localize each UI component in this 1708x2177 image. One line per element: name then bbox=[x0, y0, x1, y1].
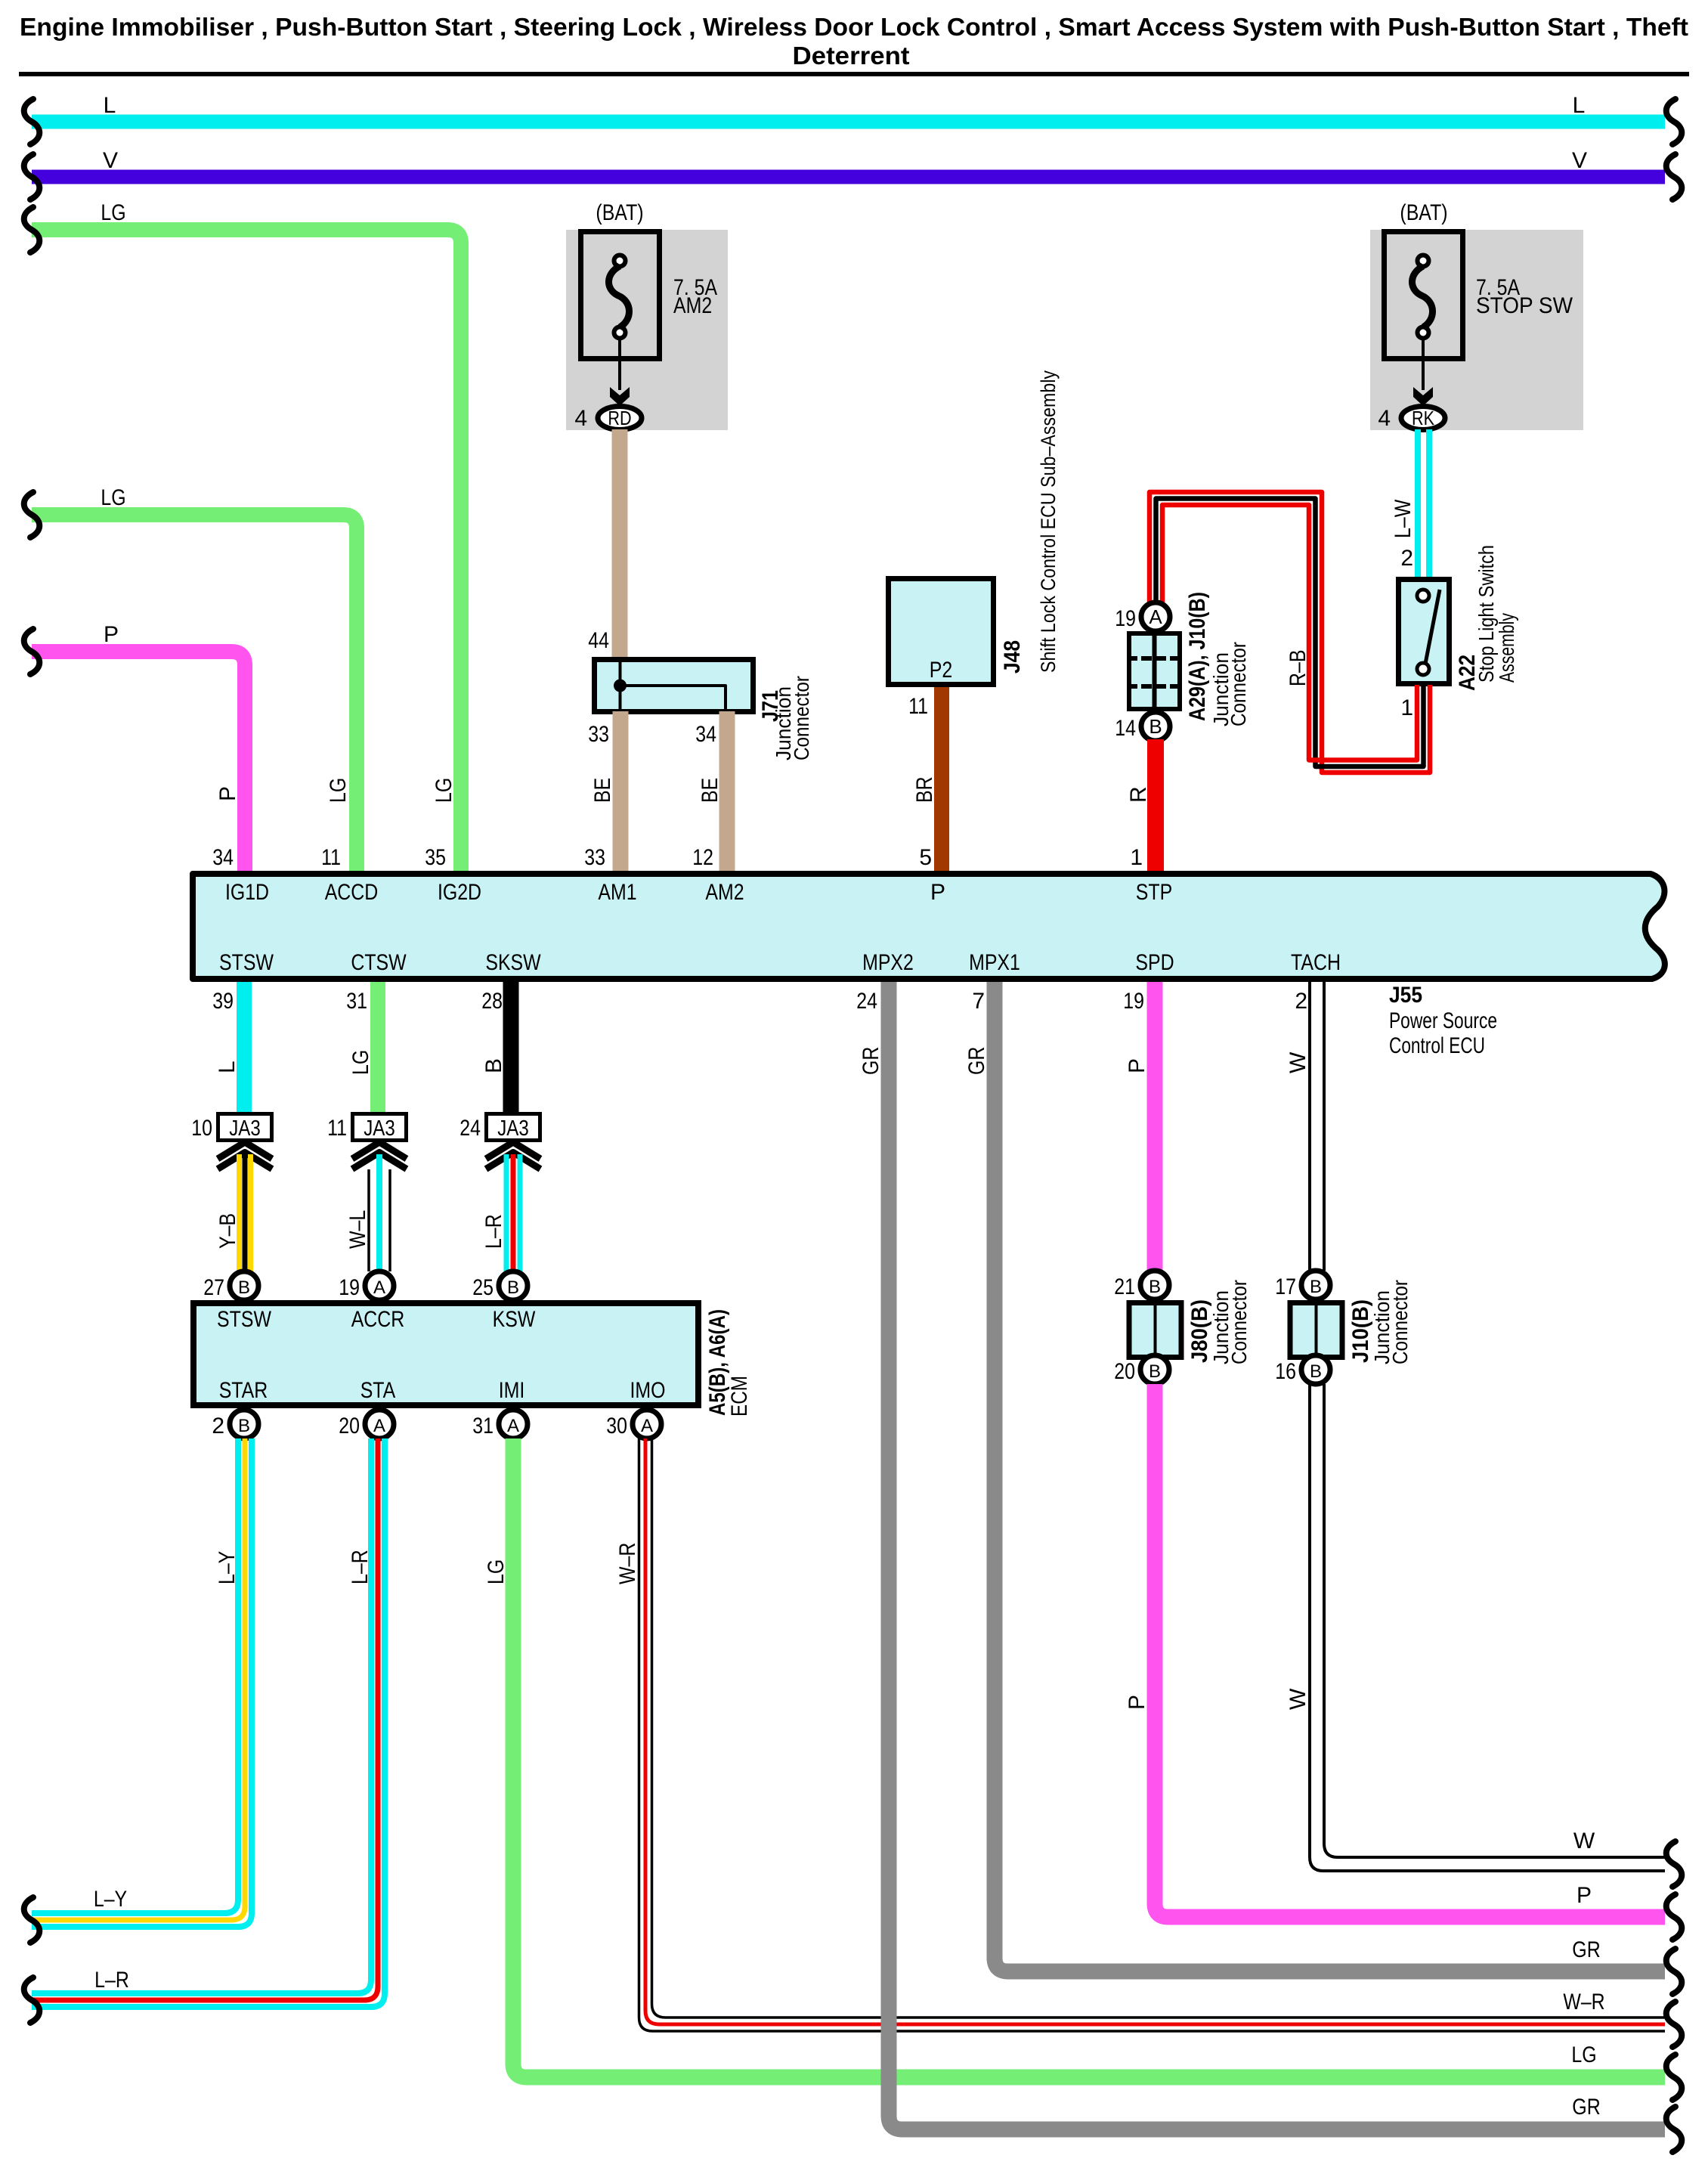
wire W-R black left bbox=[639, 1438, 1666, 2031]
svg-text:MPX2: MPX2 bbox=[862, 950, 914, 975]
svg-text:4: 4 bbox=[1378, 406, 1391, 431]
svg-text:35: 35 bbox=[425, 845, 446, 870]
wire W TACH upper left line bbox=[1308, 982, 1311, 1271]
svg-text:Power Source: Power Source bbox=[1389, 1008, 1497, 1033]
svg-text:P: P bbox=[1125, 1695, 1149, 1710]
wire R below A29 bbox=[1147, 739, 1164, 871]
svg-text:A: A bbox=[507, 1416, 519, 1436]
wire W lower inner line bbox=[1310, 1384, 1665, 1871]
A29 dashed row 2 bbox=[1127, 684, 1182, 689]
wire LG to ACCD bbox=[32, 515, 357, 871]
A22 switch lever bbox=[1425, 590, 1440, 664]
svg-text:Connector: Connector bbox=[1227, 1280, 1251, 1364]
svg-text:L: L bbox=[215, 1061, 240, 1073]
svg-text:KSW: KSW bbox=[493, 1307, 536, 1332]
svg-text:LG: LG bbox=[348, 1050, 373, 1075]
svg-text:GR: GR bbox=[1572, 2095, 1600, 2120]
svg-text:19: 19 bbox=[1115, 606, 1136, 631]
svg-text:B: B bbox=[481, 1058, 506, 1073]
svg-text:B: B bbox=[1149, 715, 1162, 738]
svg-text:W–R: W–R bbox=[1563, 1990, 1604, 2014]
connector JA3 24 box bbox=[487, 1114, 540, 1141]
svg-text:B: B bbox=[1310, 1361, 1322, 1382]
wire W TACH upper right line bbox=[1323, 982, 1326, 1271]
double chevron 24 bbox=[486, 1142, 540, 1159]
power source control ECU J55 box bbox=[193, 874, 1665, 979]
svg-text:Connector: Connector bbox=[1388, 1280, 1412, 1364]
svg-text:AM1: AM1 bbox=[598, 880, 636, 905]
break symbol GR right 2 bbox=[1666, 2107, 1682, 2152]
svg-text:(BAT): (BAT) bbox=[1400, 200, 1447, 225]
svg-text:CTSW: CTSW bbox=[351, 950, 407, 975]
svg-text:31: 31 bbox=[472, 1414, 494, 1438]
svg-text:STAR: STAR bbox=[219, 1378, 268, 1403]
A29 dashed row 1 bbox=[1127, 656, 1182, 661]
shift lock control ECU P2 box bbox=[889, 579, 994, 685]
break symbol W-R right bbox=[1666, 2002, 1682, 2047]
svg-text:RK: RK bbox=[1412, 407, 1435, 429]
arrowhead STOP SW bbox=[1413, 387, 1433, 406]
svg-text:GR: GR bbox=[964, 1047, 989, 1075]
svg-text:W: W bbox=[1286, 1688, 1310, 1710]
svg-text:Connector: Connector bbox=[1227, 642, 1250, 726]
wire L-R cyan left bbox=[504, 1154, 509, 1271]
connector 4 RK bbox=[1401, 407, 1445, 430]
svg-text:W–R: W–R bbox=[615, 1543, 640, 1584]
svg-text:W–L: W–L bbox=[345, 1210, 370, 1249]
break symbol LG right bbox=[1666, 2055, 1682, 2100]
svg-text:LG: LG bbox=[432, 778, 456, 803]
break symbol L-Y bbox=[24, 1897, 40, 1943]
svg-text:V: V bbox=[1572, 148, 1587, 173]
connector circle B 2 bbox=[230, 1410, 258, 1438]
svg-text:Y–B: Y–B bbox=[215, 1213, 240, 1249]
svg-text:A29(A), J10(B): A29(A), J10(B) bbox=[1185, 592, 1210, 721]
svg-text:A: A bbox=[641, 1416, 653, 1436]
svg-text:L–R: L–R bbox=[348, 1550, 373, 1584]
svg-text:2: 2 bbox=[212, 1414, 224, 1438]
break symbol L right bbox=[1666, 99, 1682, 144]
fuse AM2 element bbox=[614, 255, 626, 267]
connector circle B 14 bbox=[1141, 712, 1170, 741]
wire L-Y cyan top bbox=[32, 1438, 238, 1913]
wire W-L black right bbox=[388, 1169, 391, 1271]
svg-text:P: P bbox=[930, 880, 945, 905]
break symbol V left bbox=[24, 154, 40, 200]
svg-text:Control ECU: Control ECU bbox=[1389, 1033, 1485, 1058]
svg-text:BE: BE bbox=[590, 778, 615, 803]
svg-text:5: 5 bbox=[919, 845, 932, 870]
svg-text:33: 33 bbox=[584, 845, 605, 870]
connector circle B 27 bbox=[230, 1271, 258, 1300]
stop light switch A22 box bbox=[1399, 580, 1450, 684]
fuse STOP SW box bbox=[1385, 232, 1463, 359]
svg-text:LG: LG bbox=[484, 1559, 509, 1584]
wire L-R red core bbox=[32, 1438, 378, 2000]
wire BE from RD to J71 bbox=[612, 429, 628, 657]
connector circle A 19 ECM bbox=[365, 1271, 394, 1300]
svg-text:GR: GR bbox=[859, 1047, 883, 1075]
svg-text:B: B bbox=[1149, 1361, 1161, 1382]
svg-text:STOP SW: STOP SW bbox=[1476, 293, 1573, 318]
svg-text:34: 34 bbox=[212, 845, 234, 870]
wire P SPD upper bbox=[1147, 982, 1163, 1271]
svg-text:L: L bbox=[1573, 93, 1586, 118]
svg-text:L–Y: L–Y bbox=[215, 1551, 240, 1584]
wire W-R red core bbox=[645, 1438, 1665, 2024]
connector circle A 19 bbox=[1141, 602, 1170, 631]
svg-text:Deterrent: Deterrent bbox=[793, 42, 910, 70]
svg-text:Assembly: Assembly bbox=[1495, 613, 1518, 683]
connector circle A 30 bbox=[633, 1410, 661, 1438]
wire W lower outer line bbox=[1324, 1384, 1665, 1857]
fuse block STOP SW background bbox=[1370, 230, 1583, 430]
svg-text:JA3: JA3 bbox=[364, 1116, 395, 1141]
svg-text:LG: LG bbox=[101, 485, 125, 510]
wire LG CTSW bbox=[370, 982, 385, 1112]
connector 4 RD bbox=[598, 407, 642, 430]
svg-text:ACCR: ACCR bbox=[351, 1307, 405, 1332]
connector circle B 21 bbox=[1140, 1271, 1169, 1299]
svg-text:B: B bbox=[1310, 1277, 1322, 1297]
svg-text:1: 1 bbox=[1400, 695, 1413, 720]
wire LG to IG2D bbox=[32, 230, 461, 871]
svg-text:ECM: ECM bbox=[727, 1376, 752, 1417]
svg-text:R–B: R–B bbox=[1286, 650, 1310, 687]
double chevron 11 bbox=[352, 1142, 407, 1159]
svg-text:J55: J55 bbox=[1389, 983, 1422, 1008]
svg-text:31: 31 bbox=[346, 989, 367, 1014]
svg-text:16: 16 bbox=[1275, 1359, 1296, 1384]
svg-text:TACH: TACH bbox=[1291, 950, 1341, 975]
wire L-R cyan top bbox=[32, 1438, 371, 1993]
break symbol L-R bbox=[24, 1977, 40, 2023]
junction connector A29 box bbox=[1129, 633, 1180, 709]
svg-text:L–Y: L–Y bbox=[94, 1887, 127, 1912]
arrowhead AM2 bbox=[610, 387, 630, 406]
svg-text:LG: LG bbox=[1571, 2042, 1596, 2067]
svg-text:AM2: AM2 bbox=[673, 293, 712, 318]
svg-text:GR: GR bbox=[1572, 1937, 1600, 1962]
svg-text:P: P bbox=[1576, 1883, 1592, 1908]
svg-text:27: 27 bbox=[203, 1275, 224, 1300]
wire R-B red outer bbox=[1149, 492, 1430, 773]
break symbol LG bbox=[24, 207, 40, 252]
wire L-W (cyan double) bbox=[1415, 429, 1421, 577]
break symbol V right bbox=[1666, 154, 1682, 200]
break symbol W right bbox=[1666, 1841, 1682, 1887]
svg-text:19: 19 bbox=[1123, 989, 1144, 1014]
wire LG IMI bbox=[513, 1438, 1665, 2077]
wire fuse STOP SW to connector bbox=[1422, 338, 1425, 390]
svg-text:IG1D: IG1D bbox=[225, 880, 269, 905]
junction connector J10 box bbox=[1290, 1303, 1342, 1358]
wire L STSW bbox=[237, 982, 252, 1112]
wire fuse AM2 to connector bbox=[618, 338, 621, 390]
fuse AM2 box bbox=[581, 232, 660, 359]
connector circle B 25 bbox=[499, 1271, 528, 1300]
svg-text:10: 10 bbox=[191, 1116, 212, 1141]
wire Y-B black core bbox=[243, 1154, 248, 1271]
svg-text:LG: LG bbox=[101, 200, 125, 225]
wire V (violet bus) bbox=[32, 170, 1665, 184]
svg-text:7: 7 bbox=[972, 989, 985, 1014]
wire L-Y cyan bottom bbox=[32, 1438, 252, 1927]
svg-text:L: L bbox=[104, 93, 116, 118]
svg-text:B: B bbox=[238, 1277, 250, 1298]
svg-text:IMO: IMO bbox=[630, 1378, 666, 1403]
svg-text:J48: J48 bbox=[1000, 640, 1025, 674]
fuse block AM2 background bbox=[566, 230, 728, 430]
svg-text:(BAT): (BAT) bbox=[596, 200, 643, 225]
svg-text:B: B bbox=[507, 1277, 519, 1298]
svg-text:L–R: L–R bbox=[94, 1968, 129, 1993]
connector JA3 10 box bbox=[218, 1114, 272, 1141]
wire L-R cyan right bbox=[518, 1154, 523, 1271]
svg-text:2: 2 bbox=[1295, 989, 1307, 1014]
wire R-B black core bbox=[1156, 499, 1424, 767]
connector circle A 20 bbox=[365, 1410, 394, 1438]
svg-text:24: 24 bbox=[459, 1116, 481, 1141]
svg-text:P2: P2 bbox=[930, 658, 953, 683]
svg-text:JA3: JA3 bbox=[497, 1116, 529, 1141]
break symbol LG 2 bbox=[24, 492, 40, 537]
wire BE AM1 bbox=[613, 711, 629, 871]
wire GR MPX1 bbox=[995, 982, 1665, 1971]
wire Y-B yellow right bbox=[248, 1154, 253, 1271]
svg-text:12: 12 bbox=[692, 845, 713, 870]
svg-text:17: 17 bbox=[1275, 1274, 1296, 1299]
svg-text:Shift Lock Control ECU Sub–Ass: Shift Lock Control ECU Sub–Assembly bbox=[1037, 370, 1060, 673]
wire L (cyan bus) bbox=[32, 115, 1665, 129]
svg-text:44: 44 bbox=[588, 628, 609, 653]
svg-text:BE: BE bbox=[698, 778, 722, 803]
svg-text:IMI: IMI bbox=[499, 1378, 525, 1403]
svg-text:A: A bbox=[1149, 605, 1162, 628]
wire BE AM2 bbox=[719, 711, 735, 871]
svg-text:W: W bbox=[1286, 1051, 1310, 1073]
break symbol P bbox=[24, 629, 40, 674]
break symbol L left bbox=[24, 99, 40, 144]
A22 contact top bbox=[1417, 590, 1429, 602]
svg-text:Connector: Connector bbox=[790, 676, 813, 760]
svg-text:24: 24 bbox=[856, 989, 877, 1014]
wire W-R black right bbox=[652, 1438, 1666, 2018]
connector circle A 31 bbox=[499, 1410, 528, 1438]
svg-text:4: 4 bbox=[574, 406, 587, 431]
svg-text:39: 39 bbox=[212, 989, 234, 1014]
wire R-B red inner bbox=[1162, 505, 1417, 760]
svg-text:SPD: SPD bbox=[1135, 950, 1174, 975]
svg-text:A: A bbox=[373, 1277, 385, 1298]
svg-text:20: 20 bbox=[339, 1414, 360, 1438]
fuse STOP SW element bbox=[1418, 255, 1429, 267]
svg-text:11: 11 bbox=[908, 694, 928, 719]
svg-text:28: 28 bbox=[481, 989, 503, 1014]
wire L-R cyan bottom bbox=[32, 1438, 385, 2007]
svg-text:STP: STP bbox=[1136, 880, 1172, 905]
svg-text:20: 20 bbox=[1114, 1359, 1135, 1384]
wire L-R red core bbox=[511, 1154, 516, 1271]
wire W-L black left bbox=[367, 1169, 370, 1271]
svg-text:A: A bbox=[373, 1416, 385, 1436]
wire GR MPX2 bbox=[889, 982, 1665, 2129]
svg-text:Engine Immobiliser , Push-Butt: Engine Immobiliser , Push-Button Start ,… bbox=[20, 13, 1688, 41]
svg-text:IG2D: IG2D bbox=[438, 880, 481, 905]
svg-text:LG: LG bbox=[326, 778, 351, 803]
svg-text:AM2: AM2 bbox=[705, 880, 744, 905]
svg-text:STA: STA bbox=[360, 1378, 396, 1403]
svg-text:L–R: L–R bbox=[481, 1214, 506, 1249]
ECM box A5(B) A6(A) bbox=[193, 1303, 698, 1405]
svg-text:BR: BR bbox=[912, 776, 937, 803]
svg-text:1: 1 bbox=[1130, 845, 1143, 870]
svg-text:33: 33 bbox=[588, 722, 609, 747]
svg-text:V: V bbox=[103, 148, 118, 173]
svg-text:11: 11 bbox=[321, 845, 341, 870]
wire B SKSW bbox=[503, 982, 519, 1112]
svg-text:B: B bbox=[1149, 1277, 1161, 1297]
junction connector J80 box bbox=[1129, 1303, 1181, 1358]
break symbol P right bbox=[1666, 1894, 1682, 1940]
connector circle B 20 bbox=[1140, 1355, 1169, 1384]
svg-text:R: R bbox=[1126, 786, 1151, 803]
svg-text:2: 2 bbox=[1400, 546, 1413, 571]
svg-text:STSW: STSW bbox=[217, 1307, 271, 1332]
svg-text:MPX1: MPX1 bbox=[969, 950, 1020, 975]
break symbol GR right 1 bbox=[1666, 1949, 1682, 1994]
wire P SPD lower bbox=[1155, 1384, 1665, 1917]
J71 internal wire bbox=[619, 659, 622, 711]
svg-text:19: 19 bbox=[339, 1275, 360, 1300]
connector circle B 16 bbox=[1301, 1355, 1330, 1384]
wire P to IG1D bbox=[32, 652, 245, 871]
title rule bbox=[19, 72, 1689, 76]
svg-text:SKSW: SKSW bbox=[485, 950, 541, 975]
wire Y-B yellow left bbox=[237, 1154, 242, 1271]
svg-text:RD: RD bbox=[608, 407, 631, 429]
svg-text:L–W: L–W bbox=[1391, 499, 1416, 538]
double chevron 10 bbox=[218, 1142, 272, 1159]
connector JA3 11 box bbox=[353, 1114, 407, 1141]
svg-text:34: 34 bbox=[695, 722, 716, 747]
connector circle B 17 bbox=[1301, 1271, 1330, 1299]
wire L-Y yellow core bbox=[32, 1438, 245, 1920]
svg-text:30: 30 bbox=[606, 1414, 627, 1438]
svg-text:B: B bbox=[238, 1416, 250, 1436]
svg-text:P: P bbox=[104, 622, 119, 647]
svg-text:STSW: STSW bbox=[219, 950, 274, 975]
svg-text:W: W bbox=[1573, 1829, 1595, 1853]
svg-text:P: P bbox=[215, 786, 240, 801]
svg-text:14: 14 bbox=[1115, 716, 1136, 741]
svg-text:JA3: JA3 bbox=[229, 1116, 261, 1141]
junction connector J71 box bbox=[595, 660, 753, 712]
svg-text:21: 21 bbox=[1114, 1274, 1135, 1299]
svg-text:ACCD: ACCD bbox=[325, 880, 379, 905]
svg-text:25: 25 bbox=[472, 1275, 494, 1300]
wire BR bbox=[934, 687, 949, 871]
svg-text:P: P bbox=[1125, 1058, 1149, 1073]
wire W-L cyan core bbox=[376, 1154, 382, 1271]
svg-text:11: 11 bbox=[327, 1116, 347, 1141]
A22 contact bottom bbox=[1417, 663, 1429, 675]
